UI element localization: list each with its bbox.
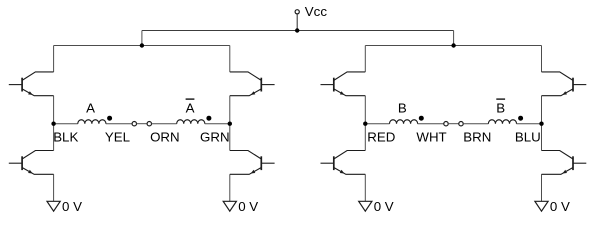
wire rail tap <box>453 31 455 46</box>
wire center link <box>137 123 148 125</box>
svg-text:0 V: 0 V <box>374 199 394 214</box>
svg-text:ORN: ORN <box>150 130 180 145</box>
junction node GRN <box>228 122 232 126</box>
junction node RED <box>363 122 367 126</box>
terminal Vcc <box>295 10 299 14</box>
wire right collector drop <box>229 46 231 72</box>
transistor Q3 <box>230 72 275 96</box>
transistor Q4 <box>230 151 275 175</box>
wire right emitter to ground <box>541 174 543 201</box>
wire right mid rail <box>229 96 231 151</box>
ground left-1 <box>47 201 60 211</box>
svg-text:0 V: 0 V <box>62 199 82 214</box>
svg-text:Vcc: Vcc <box>305 4 328 19</box>
wire left mid rail <box>53 96 55 151</box>
coil A <box>78 120 106 124</box>
wire BRN to coil <box>463 123 488 125</box>
transistor Q6 <box>321 151 366 175</box>
wire rail tap <box>141 31 143 46</box>
wire coil to node BLU <box>517 123 542 125</box>
svg-text:0 V: 0 V <box>238 199 258 214</box>
svg-text:A: A <box>86 100 95 115</box>
svg-text:WHT: WHT <box>416 130 446 145</box>
wire ORN to coil <box>152 123 177 125</box>
transistor Q7 <box>542 72 587 96</box>
svg-text:YEL: YEL <box>105 130 130 145</box>
wire right collector drop <box>541 46 543 72</box>
svg-text:BLK: BLK <box>53 130 78 145</box>
transistor Q5 <box>321 72 366 96</box>
label Bbar <box>496 98 505 100</box>
ground right-1 <box>359 201 372 211</box>
junction rail tap <box>140 43 144 47</box>
junction rail tap <box>451 43 455 47</box>
svg-text:A: A <box>186 100 195 115</box>
wire Vcc bus <box>142 30 454 32</box>
phase dot Bbar <box>518 116 523 121</box>
transistor Q2 <box>9 151 54 175</box>
svg-text:0 V: 0 V <box>550 199 570 214</box>
wire Vcc drop <box>296 14 298 31</box>
wire right mid rail <box>541 96 543 151</box>
label Abar <box>186 98 195 100</box>
phase dot Abar <box>206 116 211 121</box>
transistor Q8 <box>542 151 587 175</box>
phase dot A <box>107 116 112 121</box>
junction node BLK <box>51 122 55 126</box>
wire coil to YEL <box>106 123 132 125</box>
wire node RED <box>365 123 389 125</box>
coil Abar <box>177 120 205 124</box>
terminal BRN <box>459 122 463 126</box>
phase dot B <box>419 116 424 121</box>
svg-text:BLU: BLU <box>515 130 541 145</box>
wire top rail <box>365 45 541 47</box>
coil Bbar <box>488 120 516 124</box>
wire left collector drop <box>53 46 55 72</box>
svg-text:B: B <box>496 100 505 115</box>
svg-text:RED: RED <box>367 130 395 145</box>
wire left emitter to ground <box>53 174 55 201</box>
wire coil to WHT <box>418 123 444 125</box>
wire left mid rail <box>364 96 366 151</box>
terminal WHT <box>444 122 448 126</box>
junction Vcc <box>295 28 299 32</box>
wire left collector drop <box>364 46 366 72</box>
terminal YEL <box>132 122 136 126</box>
junction node BLU <box>539 122 543 126</box>
wire center link <box>448 123 459 125</box>
svg-text:B: B <box>398 100 407 115</box>
wire top rail <box>54 45 230 47</box>
svg-text:BRN: BRN <box>463 130 491 145</box>
wire coil to node GRN <box>205 123 230 125</box>
wire right emitter to ground <box>229 174 231 201</box>
ground right-2 <box>535 201 548 211</box>
transistor Q1 <box>9 72 54 96</box>
ground left-2 <box>223 201 236 211</box>
coil B <box>390 120 418 124</box>
wire node BLK <box>54 123 78 125</box>
terminal ORN <box>147 122 151 126</box>
wire left emitter to ground <box>364 174 366 201</box>
svg-text:GRN: GRN <box>200 130 230 145</box>
